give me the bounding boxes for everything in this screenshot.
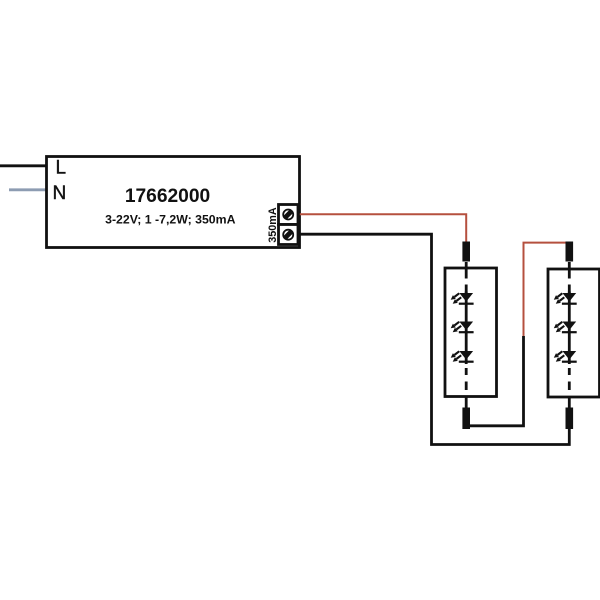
M2 lead to bottom pin	[568, 397, 571, 410]
LED D3	[451, 351, 474, 363]
wire series link: module1 bottom to module2 top (black part)	[469, 336, 524, 426]
wire series link red part	[524, 243, 569, 336]
svg-text:350mA: 350mA	[267, 207, 279, 243]
M2 bottom connector pin	[566, 408, 574, 430]
M2 internal lead (solid mid)	[568, 292, 571, 365]
wire + red: driver to LED module 1 top	[300, 214, 466, 243]
LED D4	[554, 293, 577, 305]
M1 internal lead (solid mid)	[465, 292, 468, 365]
LED D1	[451, 293, 474, 305]
M1 internal lead (dashed bottom)	[465, 368, 468, 390]
M1 top connector pin	[462, 242, 470, 262]
LED D5	[554, 322, 577, 334]
wire - black: driver to bottom bus	[300, 234, 570, 444]
M1 lead to bottom pin	[465, 396, 468, 409]
LED D2	[451, 322, 474, 334]
svg-text:3-22V; 1 -7,2W; 350mA: 3-22V; 1 -7,2W; 350mA	[105, 212, 235, 226]
LED driver U1 box 17662000	[47, 157, 300, 248]
M2 internal lead (dashed bottom)	[568, 368, 571, 390]
M2 top connector pin	[566, 242, 574, 262]
M2 internal lead (dashed top)	[568, 262, 571, 293]
M1 bottom connector pin	[462, 408, 470, 430]
wire L input	[0, 164, 47, 167]
terminal block: output terminal - (screw)	[279, 225, 299, 245]
LED module M2 box	[548, 269, 600, 397]
svg-text:17662000: 17662000	[125, 186, 210, 207]
wire N input	[9, 188, 47, 191]
M1 internal lead (dashed top)	[465, 262, 468, 293]
svg-text:N: N	[53, 183, 67, 204]
terminal block: output terminal + (screw)	[279, 205, 299, 225]
LED module M1 box	[445, 268, 497, 397]
svg-text:L: L	[56, 158, 67, 179]
LED D6	[554, 351, 577, 363]
